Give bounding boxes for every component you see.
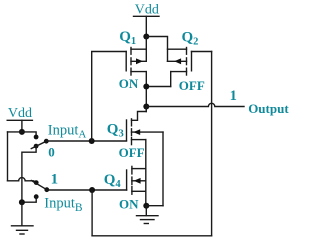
transistor Q2 gate wire <box>192 51 212 53</box>
wire right drop (Q2 gate to bottom rail) <box>211 52 213 236</box>
wire top rail to Q2 drain <box>146 37 167 62</box>
ground (left) <box>12 226 34 234</box>
node source rail junction <box>143 84 149 90</box>
wire switch B lower contact to ground <box>22 197 36 203</box>
wire Input A riser to Q1 gate <box>92 52 127 142</box>
node Q4 source junction <box>143 203 149 209</box>
node output junction <box>143 104 149 110</box>
node Vdd-left junction <box>19 129 25 135</box>
wire Q2 source drop <box>170 72 172 87</box>
wire Q3 drain staircase <box>132 107 147 121</box>
wire left rail down <box>7 132 9 181</box>
wire Input B line <box>47 189 127 191</box>
svg-text:1: 1 <box>230 88 237 104</box>
switch B bottom contact <box>34 194 39 199</box>
node Input A junction <box>89 138 95 144</box>
wire Vdd-left to switch A top contact <box>8 132 37 137</box>
transistor Q2 (PMOS, mirrored) <box>168 48 192 76</box>
switch A top contact <box>34 135 39 140</box>
switch A bottom contact <box>34 144 39 149</box>
switch B lever <box>31 181 47 190</box>
svg-text:OFF: OFF <box>119 145 145 160</box>
node Input B junction <box>89 187 95 193</box>
svg-text:Output: Output <box>248 101 289 116</box>
wire bulk link to ground node <box>146 205 163 207</box>
svg-text:1: 1 <box>51 172 59 188</box>
switch B top contact <box>34 180 39 185</box>
svg-text:Vdd: Vdd <box>135 3 159 18</box>
wire ground stem (NMOS) <box>145 206 147 216</box>
wire center rail upper <box>145 37 147 62</box>
wire Input B drop to bottom rail <box>91 190 93 236</box>
wire Input A line <box>46 140 126 142</box>
wire switch A lower contact to ground rail <box>22 146 36 202</box>
switch A pole <box>44 139 49 144</box>
node left ground junction <box>19 199 25 205</box>
wire left ground stem <box>21 202 23 225</box>
wire Vdd stem <box>145 16 147 36</box>
wire left rail to switch B top contact with hop <box>8 178 36 182</box>
svg-text:Vdd: Vdd <box>8 106 32 121</box>
Vdd top underline <box>134 15 160 17</box>
wire bottom rail <box>92 235 212 237</box>
svg-text:0: 0 <box>48 144 55 159</box>
switch A lever <box>31 141 46 148</box>
wire Q3 bulk drop <box>162 132 164 206</box>
Vdd left underline <box>7 119 32 121</box>
ground (NMOS) <box>137 216 159 224</box>
transistor Q4 (NMOS) <box>127 166 146 194</box>
wire Vdd-left stem <box>21 120 23 132</box>
transistor Q3 (NMOS) <box>127 119 164 145</box>
node top-rail junction <box>143 34 149 40</box>
wire Q3 source to Q4 drain chain <box>145 140 147 206</box>
svg-text:OFF: OFF <box>179 78 205 93</box>
switch B pole <box>44 187 49 192</box>
wire source rail <box>146 86 170 88</box>
svg-text:ON: ON <box>119 76 139 91</box>
wire output line with hop over right drop <box>146 103 244 106</box>
transistor Q1 (PMOS) <box>126 48 146 76</box>
wire Q1 source drop <box>145 72 147 112</box>
svg-text:ON: ON <box>119 197 139 212</box>
